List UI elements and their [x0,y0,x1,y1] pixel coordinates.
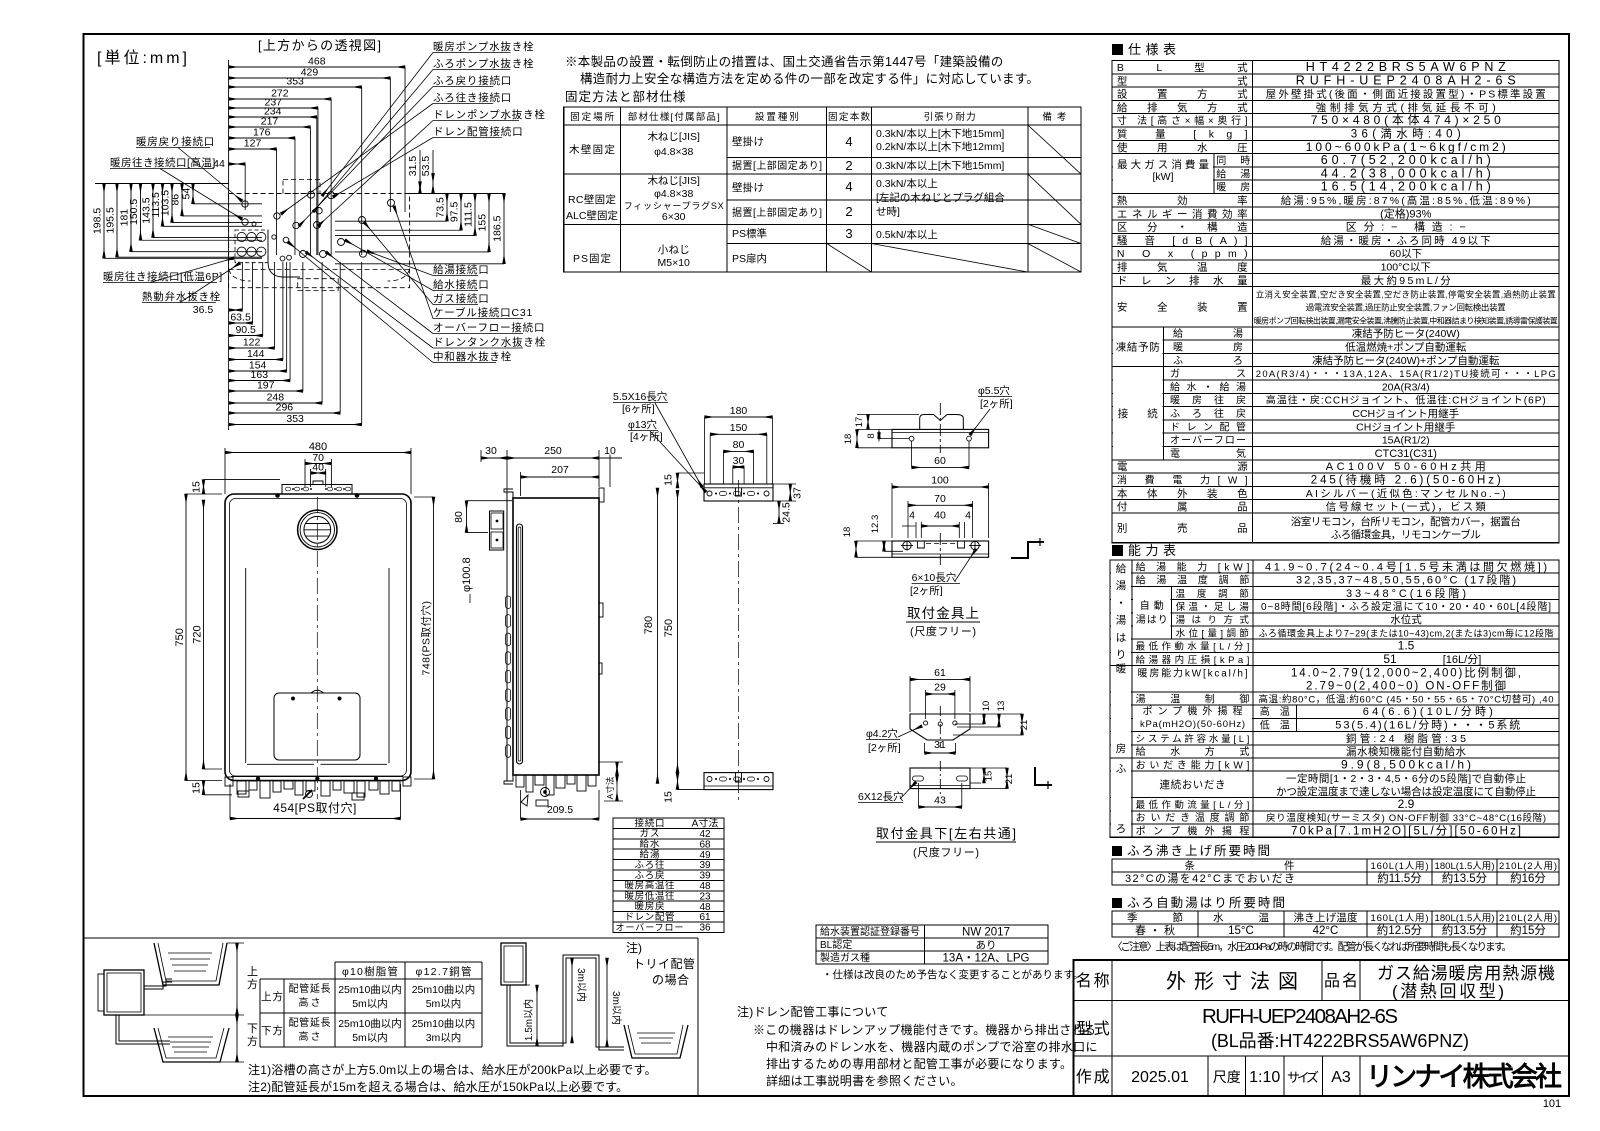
side view body [513,498,599,775]
updown dimension [236,943,238,1015]
svg-text:0.5kN/本以上: 0.5kN/本以上 [876,228,938,241]
svg-text:φ10樹脂管: φ10樹脂管 [342,965,398,978]
svg-text:方: 方 [247,977,258,991]
svg-text:エネルギー消費効率: エネルギー消費効率 [1117,207,1248,220]
svg-text:(潜熱回収型): (潜熱回収型) [1392,982,1504,1001]
svg-text:54: 54 [181,188,193,200]
top-view connection port circles [242,201,248,207]
spec table connection group [1113,368,1163,459]
svg-text:高温往・戻:CCHジョイント、低温往:CHジョイント(6P): 高温往・戻:CCHジョイント、低温往:CHジョイント(6P) [1266,394,1546,407]
certification table [816,925,1048,964]
svg-text:2.9: 2.9 [1398,797,1415,811]
svg-text:約12.5分: 約12.5分 [1377,923,1423,937]
svg-text:暖: 暖 [1116,662,1127,675]
rear view bracket dims [733,466,744,468]
svg-text:配管延長: 配管延長 [289,1016,331,1029]
svg-text:ふろ自動湯はり所要時間: ふろ自動湯はり所要時間 [1127,896,1285,910]
svg-text:180L(1.5人用): 180L(1.5人用) [1435,913,1495,924]
svg-text:φ4.8×38: φ4.8×38 [654,146,693,158]
svg-text:PS標準: PS標準 [732,227,767,240]
svg-text:給 湯: 給 湯 [1216,167,1250,180]
svg-text:17: 17 [854,417,865,428]
spec table header [1112,44,1123,55]
svg-text:150.5: 150.5 [128,199,140,225]
svg-text:4: 4 [909,510,915,522]
svg-text:排出するための専用部材と配管工事が必要になります。: 排出するための専用部材と配管工事が必要になります。 [766,1056,1072,1071]
svg-text:15: 15 [984,771,995,782]
svg-text:(BL品番:HT4222BRS5AW6PNZ): (BL品番:HT4222BRS5AW6PNZ) [1211,1031,1469,1051]
svg-text:353: 353 [286,76,304,88]
svg-text:ドレンポンプ水抜き栓: ドレンポンプ水抜き栓 [433,108,546,121]
svg-text:中和済みのドレン水を、機器内蔵のポンプで浴室の排水口に: 中和済みのドレン水を、機器内蔵のポンプで浴室の排水口に [766,1039,1098,1054]
svg-text:詳細は工事説明書を参照ください。: 詳細は工事説明書を参照ください。 [766,1073,963,1088]
svg-text:過電流安全装置,過圧防止安全装置,ファン回転検出装置: 過電流安全装置,過圧防止安全装置,ファン回転検出装置 [1306,303,1506,313]
svg-text:127: 127 [244,138,262,150]
svg-text:0.2kN/本以上[木下地12mm]: 0.2kN/本以上[木下地12mm] [876,140,1004,153]
top-view unit dashed outline [229,194,410,288]
svg-text:21: 21 [1019,720,1030,731]
svg-text:6X12長穴: 6X12長穴 [858,790,904,803]
svg-text:15: 15 [663,791,675,803]
svg-text:せ時]: せ時] [876,206,900,218]
side view A-dim label [616,762,618,775]
svg-text:454[PS取付穴]: 454[PS取付穴] [273,800,357,815]
svg-text:5m以内: 5m以内 [426,997,462,1010]
svg-text:の場合: の場合 [652,972,690,987]
svg-text:凍結予防ヒータ(240W)+ポンプ自動運転: 凍結予防ヒータ(240W)+ポンプ自動運転 [1312,354,1500,367]
capability auto-yuhari group [1133,587,1171,638]
svg-text:14.0~2.79(12,000~2,400)比例制御,: 14.0~2.79(12,000~2,400)比例制御, [1291,666,1521,680]
front view bottom dim 454 [230,818,401,820]
svg-text:ふろ戻: ふろ戻 [635,869,665,881]
svg-text:戻り温度検知(サーミスタ) ON-OFF制御 33°C~: 戻り温度検知(サーミスタ) ON-OFF制御 33°C~48°C(16段階) [1266,812,1546,824]
svg-text:180L(1.5人用): 180L(1.5人用) [1435,861,1495,872]
svg-text:房: 房 [1116,742,1127,755]
svg-text:(尺度フリー): (尺度フリー) [913,845,979,859]
svg-text:15: 15 [191,782,203,794]
svg-text:30: 30 [733,455,745,467]
svg-text:73.5: 73.5 [435,197,447,218]
svg-text:ろ: ろ [1116,823,1127,835]
svg-text:15A(R1/2): 15A(R1/2) [1382,435,1430,447]
svg-text:353: 353 [286,413,304,425]
svg-text:61: 61 [934,667,946,679]
svg-text:暖房高温往: 暖房高温往 [625,880,675,892]
capability table header [1112,545,1123,556]
svg-text:約11.5分: 約11.5分 [1377,871,1422,885]
svg-text:245(待機時 2.6)(50-60Hz): 245(待機時 2.6)(50-60Hz) [1311,473,1501,487]
bracket-bottom detail view1 [910,714,970,740]
svg-text:ふろ沸き上げ所要時間: ふろ沸き上げ所要時間 [1127,844,1270,858]
front view bottom lines [247,763,314,765]
piping pipes left [144,979,172,986]
svg-text:小ねじ: 小ねじ [658,244,690,256]
svg-text:[単位:mm]: [単位:mm] [97,49,187,67]
svg-text:据置[上部固定あり]: 据置[上部固定あり] [732,159,822,172]
capability table grid [1110,560,1559,837]
top-view port grid box [235,230,268,263]
svg-text:暖房往き接続口[低温6P]: 暖房往き接続口[低温6P] [103,270,223,283]
fixing and parts table [564,107,1081,272]
svg-text:湯はり: 湯はり [1136,613,1168,626]
svg-text:オーバーフロー接続口: オーバーフロー接続口 [433,321,545,334]
svg-text:6×10長穴: 6×10長穴 [912,571,957,584]
front view body [225,494,411,781]
svg-text:AIシルバー(近似色:マンセルNo.−): AIシルバー(近似色:マンセルNo.−) [1306,487,1506,500]
svg-text:約13.5分: 約13.5分 [1442,871,1488,885]
svg-text:ガス給湯暖房用熱源機: ガス給湯暖房用熱源機 [1377,964,1555,983]
svg-text:尺度: 尺度 [1213,1069,1241,1085]
bath heating time table [1112,859,1559,885]
svg-text:部材仕様[付属部品]: 部材仕様[付属部品] [628,111,720,123]
svg-text:ふろポンプ水抜き栓: ふろポンプ水抜き栓 [433,57,534,70]
side view dim 207 [521,476,599,478]
svg-text:暖房ポンプ回転検出装置,漏電安全装置,沸騰防止装置,中和器詰: 暖房ポンプ回転検出装置,漏電安全装置,沸騰防止装置,中和器詰まり検知装置,誘導雷… [1254,316,1558,326]
svg-text:[4ヶ所]: [4ヶ所] [630,431,663,443]
svg-text:198.5: 198.5 [92,208,104,234]
auto fill time table header [1112,898,1122,908]
svg-text:凍結予防: 凍結予防 [1116,341,1160,354]
svg-text:5.5X16長穴: 5.5X16長穴 [613,390,668,403]
svg-text:(定格)93%: (定格)93% [1380,206,1432,220]
bracket-bottom L profile glyph [1035,767,1052,785]
svg-text:60以下: 60以下 [1389,248,1422,260]
svg-text:ふろ循環金具上より7~29(または10~43)cm,2(また: ふろ循環金具上より7~29(または10~43)cm,2(または3)cm毎に12段… [1259,627,1554,638]
svg-text:固定場所: 固定場所 [570,111,614,123]
svg-text:3: 3 [845,226,852,241]
svg-text:kPa(mH2O)(50-60Hz): kPa(mH2O)(50-60Hz) [1140,719,1245,730]
bracket-top dims 18 17 8 [867,415,869,430]
svg-text:名称: 名称 [1076,972,1110,990]
svg-text:29: 29 [934,682,946,694]
svg-text:は: は [1116,632,1127,644]
top-view dim 44 [229,163,246,165]
side view right bumps [599,603,603,617]
svg-text:0.3kN/本以上[木下地15mm]: 0.3kN/本以上[木下地15mm] [876,127,1004,140]
svg-text:5m以内: 5m以内 [352,997,388,1010]
svg-text:外形寸法図: 外形寸法図 [1166,970,1298,993]
svg-text:3m以内: 3m以内 [610,991,623,1025]
svg-text:ふ: ふ [1116,763,1127,775]
svg-text:製造ガス種: 製造ガス種 [820,951,870,964]
rear view bottom bracket [704,773,773,790]
svg-text:18: 18 [842,527,853,538]
svg-text:6×30: 6×30 [662,211,686,223]
front view lower access panel [274,693,360,760]
svg-text:φ12.7銅管: φ12.7銅管 [416,965,472,978]
svg-text:CCHジョイント用継手: CCHジョイント用継手 [1352,407,1459,420]
bracket-top dim 60 [912,466,969,468]
svg-text:CHジョイント用継手: CHジョイント用継手 [1356,420,1455,433]
svg-text:ふろ往: ふろ往 [635,859,665,871]
svg-text:低温燃焼+ポンプ自動運転: 低温燃焼+ポンプ自動運転 [1345,341,1467,354]
svg-text:沸き上げ温度: 沸き上げ温度 [1294,911,1359,924]
svg-text:ふろ循環金具，リモコンケーブル: ふろ循環金具，リモコンケーブル [1331,528,1481,541]
svg-text:〈ご注意〉上表は配管長5m，水圧200kPaの時の時間です。: 〈ご注意〉上表は配管長5m，水圧200kPaの時の時間です。配管が長くなれば所要… [1112,940,1512,953]
svg-text:PS固定: PS固定 [573,252,612,265]
bracket-top detail view2 [892,541,989,557]
svg-text:90.5: 90.5 [235,324,256,336]
svg-text:品名: 品名 [1324,972,1358,990]
svg-text:※この機器はドレンアップ機能付きです。機器から排出される: ※この機器はドレンアップ機能付きです。機器から排出される [753,1022,1096,1037]
svg-text:37: 37 [792,487,804,499]
svg-text:160L(1人用): 160L(1人用) [1371,913,1429,924]
svg-text:注2)配管延長が15mを超える場合は、給水圧が150kPa以: 注2)配管延長が15mを超える場合は、給水圧が150kPa以上必要です。 [248,1079,628,1094]
svg-text:36: 36 [699,923,711,934]
top-view right upper dims 31.5 53.5 [419,182,421,194]
svg-text:固定方法と部材仕様: 固定方法と部材仕様 [565,89,687,104]
svg-text:ガス接続口: ガス接続口 [433,292,490,305]
svg-text:注): 注) [626,940,642,955]
svg-text:63.5: 63.5 [230,312,251,324]
svg-text:53(5.4)(16L/分時)・・・5系統: 53(5.4)(16L/分時)・・・5系統 [1335,717,1520,731]
svg-text:約13.5分: 約13.5分 [1442,923,1488,937]
capability pump rows [1133,706,1252,730]
svg-text:連続おいだき: 連続おいだき [1160,778,1226,791]
svg-text:2: 2 [845,158,852,173]
svg-text:209.5: 209.5 [547,804,573,816]
svg-text:ガス: ガス [640,829,660,840]
svg-text:あり: あり [976,940,997,952]
svg-text:春・秋: 春・秋 [1135,923,1175,937]
rear view center line [738,480,740,800]
rear view vertical dims 780 750 [657,488,659,784]
svg-text:給湯器内圧損[kPa]: 給湯器内圧損[kPa] [1136,654,1250,666]
title block row3 [1207,1056,1209,1096]
svg-text:中和器水抜き栓: 中和器水抜き栓 [433,350,512,363]
svg-text:[6ヶ所]: [6ヶ所] [622,403,655,415]
svg-text:暖房ポンプ水抜き栓: 暖房ポンプ水抜き栓 [433,40,534,53]
torii piping pipes [507,955,624,1050]
bracket-top L profile glyph [1011,542,1044,558]
svg-text:150: 150 [730,422,748,434]
torii tub [624,1025,688,1058]
side view dim 209.5 [521,818,599,820]
svg-text:144: 144 [247,348,265,360]
svg-text:漏水検知機能付自動給水: 漏水検知機能付自動給水 [1346,745,1467,758]
svg-text:・仕様は改良のため予告なく変更することがあります。: ・仕様は改良のため予告なく変更することがあります。 [822,968,1083,981]
svg-text:RC壁固定: RC壁固定 [568,193,617,206]
svg-text:消 費 電 力[W]: 消 費 電 力[W] [1117,474,1248,487]
svg-text:配管延長: 配管延長 [289,982,331,995]
svg-text:155: 155 [477,214,489,232]
svg-text:25m10曲以内: 25m10曲以内 [338,1017,402,1030]
top-view right lower dims [446,194,448,222]
svg-text:15°C: 15°C [1228,925,1254,937]
svg-text:100~600kPa(1~6kgf/cm2): 100~600kPa(1~6kgf/cm2) [1306,140,1506,154]
svg-text:40: 40 [312,462,324,474]
svg-text:CTC31(C31): CTC31(C31) [1375,448,1437,460]
svg-text:取付金具下[左右共通]: 取付金具下[左右共通] [876,826,1016,841]
svg-text:高 温: 高 温 [1260,705,1290,718]
svg-text:給: 給 [1116,562,1127,575]
piping length table [335,961,482,963]
svg-text:4: 4 [845,179,852,194]
svg-text:おいだき能力[kW]: おいだき能力[kW] [1136,758,1250,771]
svg-text:32°Cの湯を42°Cまでおいだき: 32°Cの湯を42°Cまでおいだき [1125,872,1295,885]
svg-text:8: 8 [866,433,877,438]
svg-text:φ4.8×38: φ4.8×38 [654,188,693,200]
svg-text:り: り [1116,649,1127,661]
svg-text:42°C: 42°C [1313,925,1339,937]
svg-text:木ねじ[JIS]: 木ねじ[JIS] [647,131,700,143]
svg-text:1:10: 1:10 [1249,1069,1280,1086]
rear view dim 15 bottom [677,773,679,790]
svg-text:高温:約80°C，低温:約60°C (45・50・55・65: 高温:約80°C，低温:約60°C (45・50・55・65・70°C切替可) … [1259,693,1554,705]
svg-text:フィッシャープラグSX: フィッシャープラグSX [624,200,724,211]
svg-text:オーバーフロー: オーバーフロー [616,922,684,932]
svg-text:210L(2人用): 210L(2人用) [1499,861,1557,872]
svg-text:水 温: 水 温 [1213,912,1270,924]
front view side panel lines [245,568,247,763]
svg-text:160L(1人用): 160L(1人用) [1371,861,1429,872]
svg-text:750: 750 [663,619,675,637]
svg-text:186.5: 186.5 [492,215,504,241]
svg-text:湯: 湯 [1116,580,1127,592]
svg-text:RUFH-UEP2408AH2-6S: RUFH-UEP2408AH2-6S [1202,1005,1398,1028]
svg-text:43: 43 [934,795,946,807]
svg-text:32,35,37~48,50,55,60°C (17段階): 32,35,37~48,50,55,60°C (17段階) [1296,573,1516,587]
top-view top dimension stack [229,66,405,68]
svg-text:[2ヶ所]: [2ヶ所] [910,585,943,597]
svg-text:15: 15 [663,474,675,486]
svg-text:ドレン配管: ドレン配管 [625,911,675,923]
bracket-top detail view1 [892,429,989,447]
svg-text:[16L/分]: [16L/分] [1443,653,1482,666]
svg-text:[上方からの透視図]: [上方からの透視図] [258,38,381,53]
side view vent slats [506,596,511,609]
svg-text:φ4.2穴: φ4.2穴 [866,727,898,740]
svg-text:31: 31 [934,739,946,751]
svg-text:24.5: 24.5 [781,502,793,523]
torii dims [536,985,538,1046]
svg-text:M5×10: M5×10 [657,257,690,269]
bracket-bottom view2 dims [983,768,985,783]
svg-text:ドレン配管接続口: ドレン配管接続口 [433,125,523,138]
svg-text:能力表: 能力表 [1128,543,1176,558]
svg-text:固定本数: 固定本数 [828,111,870,123]
svg-text:屋外壁掛式(後面・側面近接設置型)・PS標準設置: 屋外壁掛式(後面・側面近接設置型)・PS標準設置 [1266,88,1546,101]
svg-text:注1)浴槽の高さが上方5.0m以上の場合は、給水圧が200k: 注1)浴槽の高さが上方5.0m以上の場合は、給水圧が200kPa以上必要です。 [248,1062,657,1077]
svg-text:748(PS取付穴): 748(PS取付穴) [420,600,433,675]
svg-text:70kPa[7.1mH2O][5L/分][50-60Hz]: 70kPa[7.1mH2O][5L/分][50-60Hz] [1291,824,1521,837]
svg-text:0.3kN/本以上: 0.3kN/本以上 [876,177,938,190]
svg-text:注)ドレン配管工事について: 注)ドレン配管工事について [737,1004,889,1019]
svg-text:80: 80 [733,439,745,451]
svg-text:仕様表: 仕様表 [1128,42,1176,57]
svg-text:25m10曲以内: 25m10曲以内 [338,983,402,996]
svg-text:ケーブル接続口C31: ケーブル接続口C31 [433,306,533,319]
svg-text:接続口: 接続口 [635,817,665,829]
svg-text:0~8時間[6段階]・ふろ設定温にて10・20・40・60L: 0~8時間[6段階]・ふろ設定温にて10・20・40・60L[4段階] [1261,600,1551,613]
svg-text:3m以内: 3m以内 [426,1031,462,1044]
svg-text:HT4222BRS5AW6PNZ: HT4222BRS5AW6PNZ [1306,60,1506,74]
svg-text:3m以内: 3m以内 [575,968,588,1002]
svg-text:[kW]: [kW] [1153,171,1174,183]
svg-text:[左記の木ねじとプラグ組合: [左記の木ねじとプラグ組合 [876,191,1005,204]
svg-text:4: 4 [845,134,852,149]
svg-text:上: 上 [247,965,258,978]
svg-text:100°C以下: 100°C以下 [1381,261,1431,273]
top-view bottom dimension stack [229,309,243,311]
svg-text:湯: 湯 [1116,615,1127,627]
svg-text:[2ヶ所]: [2ヶ所] [980,398,1013,410]
svg-text:111.5: 111.5 [463,202,475,227]
rear view dim 15 top [677,473,679,488]
svg-text:2025.01: 2025.01 [1131,1069,1189,1086]
svg-text:NW 2017: NW 2017 [962,927,1010,939]
side view wall bracket [490,511,504,550]
svg-text:0.3kN/本以上[木下地15mm]: 0.3kN/本以上[木下地15mm] [876,159,1004,172]
svg-text:暖房低温往: 暖房低温往 [625,890,675,902]
svg-text:オーバーフロー: オーバーフロー [1170,435,1246,447]
svg-text:給湯: 給湯 [640,849,660,861]
svg-text:給水接続口: 給水接続口 [433,278,490,291]
svg-text:70: 70 [934,493,946,505]
front view top mounting strip [282,485,352,495]
svg-text:80: 80 [453,511,465,523]
svg-text:780: 780 [643,616,655,634]
torii piping unit [501,943,526,985]
svg-text:作成: 作成 [1076,1068,1110,1086]
title block [1074,960,1570,1096]
bracket-bottom detail view2 [910,768,970,789]
side view dim 80 [466,501,468,533]
svg-text:33~48°C(16段階): 33~48°C(16段階) [1346,586,1466,600]
svg-text:41.9~0.7(24~0.4号[1.5号未満は間欠燃焼]): 41.9~0.7(24~0.4号[1.5号未満は間欠燃焼]) [1265,559,1547,573]
svg-text:壁掛け: 壁掛け [732,135,764,148]
svg-text:1.5: 1.5 [1398,639,1415,653]
svg-text:2.79~0(2,400~0) ON-OFF制御: 2.79~0(2,400~0) ON-OFF制御 [1306,679,1506,693]
svg-text:区 分 ・ 構 造: 区 分 ・ 構 造 [1117,221,1248,234]
svg-text:本 体 外 装 色: 本 体 外 装 色 [1117,487,1248,500]
auto fill time table [1112,911,1559,937]
svg-text:壁掛け: 壁掛け [732,181,764,194]
svg-text:木壁固定: 木壁固定 [569,143,616,156]
side view top dims 30 250 10 [481,457,507,459]
svg-text:13A・12A、LPG: 13A・12A、LPG [943,953,1030,965]
svg-text:BL認定: BL認定 [820,938,852,951]
svg-text:設置種別: 設置種別 [755,111,799,123]
front view left dims 750 720 15 [185,494,187,781]
svg-text:暖房戻: 暖房戻 [635,901,665,913]
front view right dim 748 [433,497,435,779]
svg-text:97.5: 97.5 [449,202,461,223]
svg-text:20A(R3/4)・・・13A,12A、15A(R1/2)T: 20A(R3/4)・・・13A,12A、15A(R1/2)TU接続可・・・LPG [1256,368,1556,380]
svg-text:ふろ戻り接続口: ふろ戻り接続口 [433,74,512,87]
svg-text:暖房往き接続口[高温]: 暖房往き接続口[高温] [110,156,216,169]
svg-text:31.5: 31.5 [407,156,419,177]
svg-text:[2ヶ所]: [2ヶ所] [868,742,901,754]
svg-text:180: 180 [730,405,748,417]
svg-text:給水: 給水 [640,838,660,850]
svg-text:暖房戻り接続口: 暖房戻り接続口 [136,135,215,148]
svg-text:方: 方 [247,1034,258,1048]
svg-text:給湯・暖房・ふろ同時 49以下: 給湯・暖房・ふろ同時 49以下 [1321,234,1491,247]
svg-text:同 時: 同 時 [1216,155,1250,167]
svg-text:100: 100 [931,475,949,487]
svg-text:φ100.8: φ100.8 [461,557,473,592]
svg-text:13: 13 [996,701,1007,712]
svg-text:立消え安全装置,空だき安全装置,空だき防止装置,停電安全装置: 立消え安全装置,空だき安全装置,空だき防止装置,停電安全装置,過熱防止装置 [1256,290,1556,300]
svg-text:PS扉内: PS扉内 [732,252,767,265]
svg-text:木ねじ[JIS]: 木ねじ[JIS] [647,175,700,187]
svg-text:1.5m以内: 1.5m以内 [522,999,535,1041]
bath heating time table header [1112,846,1122,856]
svg-text:下方: 下方 [261,1024,283,1037]
svg-text:750: 750 [174,628,186,646]
svg-text:A寸法: A寸法 [692,817,719,830]
